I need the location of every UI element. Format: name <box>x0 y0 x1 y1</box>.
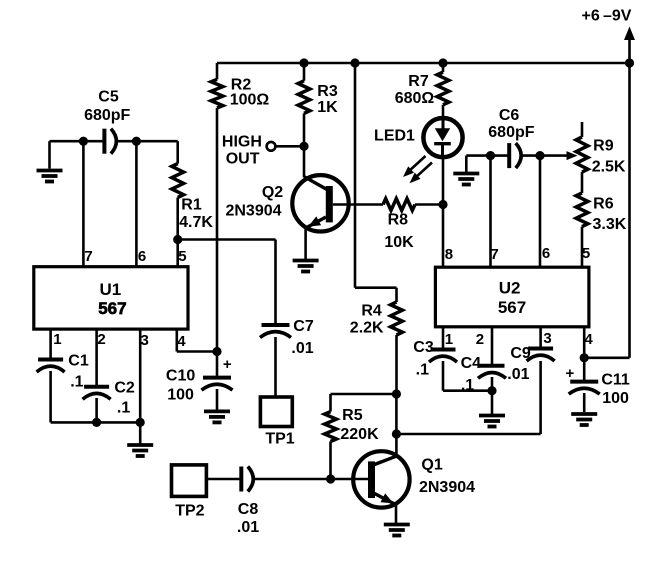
node: C5 / U1 pin 7 junction <box>79 137 88 146</box>
node: rail junction at R4 branch <box>350 58 359 67</box>
wire: HIGH OUT node to Q2 collector <box>303 146 306 177</box>
resistor R8 <box>383 199 415 211</box>
svg-text:C1: C1 <box>68 353 89 370</box>
power terminal +6-9V arrow <box>628 38 631 63</box>
node: pin 3 ground junction <box>136 418 145 427</box>
wire: C6 right plate to node <box>522 154 541 157</box>
wire: U2 pin 3 down <box>539 327 542 349</box>
node: R4/R5 junction <box>392 389 401 398</box>
wire: U2 pin 7 line <box>489 156 492 268</box>
wire: R2 top to rail <box>216 63 219 79</box>
svg-text:100Ω: 100Ω <box>230 91 270 108</box>
svg-text:R7: R7 <box>408 73 429 90</box>
wire: R8 to LED node <box>415 203 443 206</box>
wire: C5 row to R1 corner <box>136 140 177 143</box>
ground: C3/C4 <box>479 414 505 418</box>
capacitor C10 (electrolytic) <box>216 352 219 378</box>
svg-text:220K: 220K <box>340 426 379 443</box>
wire: pin 5 node to C7 (crosses R2 wire) <box>178 238 276 241</box>
svg-text:C4: C4 <box>461 355 482 372</box>
node: C3/C4 ground junction <box>487 386 496 395</box>
svg-text:680Ω: 680Ω <box>395 90 435 107</box>
capacitor C7 <box>262 323 290 327</box>
svg-text:C10: C10 <box>166 368 195 385</box>
resistor R4 <box>391 302 403 335</box>
node: Q1 collector / C9 bus junction <box>392 429 401 438</box>
svg-text:3: 3 <box>543 330 551 347</box>
wire: C4 bottom to ground node <box>491 377 494 391</box>
node: pin 4 / R2 / C10 junction <box>212 347 221 356</box>
svg-text:8: 8 <box>445 246 453 263</box>
svg-text:.01: .01 <box>291 340 313 357</box>
svg-text:4: 4 <box>584 331 593 348</box>
svg-text:100: 100 <box>167 386 194 403</box>
resistor R6 <box>576 193 588 227</box>
wire: rail to R3 top <box>303 63 306 81</box>
wire: U1 pin 5 into box <box>176 240 179 267</box>
svg-text:.1: .1 <box>70 373 83 390</box>
wire: pin 4 node to right riser <box>584 356 629 359</box>
svg-text:7: 7 <box>84 248 92 265</box>
svg-text:R6: R6 <box>593 195 614 212</box>
wire: TP2 to C8 <box>206 478 241 481</box>
wire: rail to R7 <box>442 63 445 72</box>
node: rail junction at R3 <box>299 58 308 67</box>
wire: node to Q1 collector <box>395 434 398 456</box>
wire: C6 ground branch <box>466 154 490 157</box>
svg-text:.1: .1 <box>416 361 429 378</box>
node: Q1 base junction <box>326 474 335 483</box>
wire: R2 bottom down to C10 node <box>216 108 219 352</box>
svg-text:.01: .01 <box>237 519 259 536</box>
svg-text:C11: C11 <box>601 372 630 389</box>
node: LED cathode / U2 pin 8 junction <box>438 200 447 209</box>
node: C6 left / U2 pin 7 junction <box>486 151 495 160</box>
wire: U1 pin 2 down <box>95 329 98 387</box>
resistor R7 <box>437 72 449 105</box>
svg-text:567: 567 <box>98 299 126 318</box>
svg-text:U2: U2 <box>499 279 521 298</box>
capacitor C4 <box>480 364 505 368</box>
svg-text:2N3904: 2N3904 <box>419 479 475 496</box>
svg-text:1: 1 <box>53 331 61 348</box>
wire: bus to pin 3 node <box>97 421 141 424</box>
svg-text:TP2: TP2 <box>175 503 204 520</box>
svg-text:C9: C9 <box>510 345 531 362</box>
wire: +6-9V supply rail <box>217 62 630 65</box>
svg-text:OUT: OUT <box>226 150 260 167</box>
wire: C8 to Q1 base node <box>252 478 331 481</box>
wire: rail down to R4 (crosses Q2 base wire) <box>354 63 357 288</box>
svg-text:6: 6 <box>542 245 550 262</box>
LED LED1 <box>423 118 462 157</box>
wire: C2 bottom to bus node <box>95 398 98 422</box>
wire: C9 bottom bus to Q1 collector node <box>396 433 540 436</box>
wire: R7 to LED anode <box>442 105 445 119</box>
wire: Q2 emitter down <box>304 229 307 261</box>
IC U2 567 <box>435 267 589 327</box>
IC U1 567 <box>34 267 188 329</box>
svg-text:R1: R1 <box>181 197 202 214</box>
wire: ground stub <box>491 391 494 414</box>
transistor Q2 2N3904 <box>292 175 348 231</box>
wire: R5 top branch <box>331 393 397 396</box>
capacitor C9 <box>528 347 553 351</box>
wire: U2 pin 6 line <box>539 156 542 268</box>
wire: R4 bottom to R5 node <box>395 335 398 394</box>
svg-text:4.7K: 4.7K <box>179 214 213 231</box>
svg-text:+: + <box>223 356 232 373</box>
wire: U1 pin 3 down <box>139 329 142 422</box>
svg-text:Q1: Q1 <box>421 457 442 474</box>
capacitor C2 <box>84 385 109 389</box>
wire: C1 bottom to bus <box>49 371 52 422</box>
wire: wiper arrow to R9 <box>540 154 568 157</box>
wire: Q1 emitter down <box>395 505 398 523</box>
wire: C7 to TP1 <box>274 337 277 397</box>
svg-text:.1: .1 <box>117 399 130 416</box>
svg-text:567: 567 <box>498 298 526 317</box>
wire: R3 bottom to HIGH OUT node <box>303 113 306 146</box>
svg-text:2N3904: 2N3904 <box>225 202 281 219</box>
svg-text:C7: C7 <box>293 318 314 335</box>
capacitor C5 <box>102 129 106 154</box>
svg-text:C2: C2 <box>114 380 135 397</box>
capacitor C3 <box>431 348 456 352</box>
wire: pin 3 ground stub <box>139 422 142 443</box>
node: rail corner to U2 pin 4 <box>625 58 634 67</box>
wire: U1 pin 4 to C10 node <box>176 329 179 351</box>
node: HIGH OUT junction <box>299 142 308 151</box>
svg-text:1K: 1K <box>317 99 338 116</box>
wire: U2 pin 1 down <box>442 327 445 350</box>
svg-text:100: 100 <box>602 390 629 407</box>
svg-text:C8: C8 <box>238 501 259 518</box>
capacitor C6 <box>507 143 511 168</box>
wire: C3 bottom to C4 node <box>442 361 445 391</box>
svg-text:680pF: 680pF <box>488 124 534 141</box>
ground: Q1 emitter <box>384 523 410 527</box>
wire: R1 bottom to pin 5 node <box>176 198 179 240</box>
svg-text:.01: .01 <box>507 366 529 383</box>
svg-text:2.2K: 2.2K <box>350 320 384 337</box>
svg-text:6: 6 <box>138 248 146 265</box>
test point TP1 <box>260 397 292 427</box>
svg-text:Q2: Q2 <box>262 184 283 201</box>
wire: U1 pin 7 line <box>82 141 85 267</box>
wire: Q2 base to R8 <box>333 203 383 206</box>
svg-text:7: 7 <box>490 246 498 263</box>
svg-text:LED1: LED1 <box>374 127 415 144</box>
svg-text:R3: R3 <box>317 83 338 100</box>
wire: R5 node down to C9 bus node <box>395 394 398 434</box>
node: C5 / U1 pin 6 junction <box>132 137 141 146</box>
wire: R6 bottom to U2 pin 5 <box>581 227 584 268</box>
ground: C10 <box>204 409 230 413</box>
svg-text:4: 4 <box>177 333 186 350</box>
wire: base node to Q1 base <box>331 478 368 481</box>
svg-text:1: 1 <box>445 331 453 348</box>
svg-text:3.3K: 3.3K <box>593 216 627 233</box>
svg-text:C3: C3 <box>413 339 434 356</box>
svg-text:+6 –9V: +6 –9V <box>582 7 632 24</box>
wire: U1 pin 1 down <box>49 329 52 359</box>
wire: U2 pin 4 down <box>583 327 586 358</box>
capacitor C1 <box>38 358 63 362</box>
ground: Q2 emitter <box>293 259 319 263</box>
resistor R3 <box>298 81 310 114</box>
svg-text:3: 3 <box>141 332 149 349</box>
node: rail junction at R7 <box>438 58 447 67</box>
resistor R2 <box>211 79 223 108</box>
wire: C6 left node to plate <box>491 154 510 157</box>
node: U1 pin 5 junction <box>173 235 182 244</box>
ground: U1 pin 3 <box>127 443 153 447</box>
svg-text:10K: 10K <box>384 234 414 251</box>
svg-text:2.5K: 2.5K <box>592 159 626 176</box>
ground: C11 <box>571 412 597 416</box>
node: pin 4 / C11 junction <box>580 353 589 362</box>
wire: C5 right plate to node <box>117 140 137 143</box>
svg-text:5: 5 <box>178 248 186 265</box>
resistor R1 <box>172 164 184 198</box>
wire: node to C5 plate <box>83 140 104 143</box>
wire: LED cathode to node to U2 pin 8 <box>442 158 445 205</box>
wire: U2 pin 2 down <box>491 327 494 366</box>
svg-text:R8: R8 <box>388 211 409 228</box>
wire: C5 ground branch <box>50 140 84 143</box>
test point TP2 <box>172 465 207 497</box>
resistor R5 <box>325 412 337 442</box>
capacitor C11 (electrolytic) <box>583 358 586 382</box>
transistor Q1 2N3904 <box>353 451 409 507</box>
LED1 light emission arrows <box>409 156 426 172</box>
svg-text:C5: C5 <box>98 89 119 106</box>
potentiometer R9 <box>581 122 584 137</box>
capacitor C8 <box>239 467 243 492</box>
svg-text:TP1: TP1 <box>265 431 294 448</box>
ground: C5 left <box>37 169 63 173</box>
wire: right riser to rail <box>628 63 631 358</box>
wire: R9 bottom to R6 top <box>581 172 584 193</box>
svg-text:U1: U1 <box>100 280 122 299</box>
svg-text:680pF: 680pF <box>84 107 130 124</box>
svg-text:C6: C6 <box>499 107 520 124</box>
node: C2 bus junction <box>92 418 101 427</box>
wire: R5 bottom to Q1 base node <box>329 442 332 480</box>
ground: C6 left plate <box>453 172 479 176</box>
svg-text:2: 2 <box>97 331 105 348</box>
svg-text:R9: R9 <box>593 138 614 155</box>
svg-text:.1: .1 <box>461 377 474 394</box>
node: C6 right / U2 pin 6 junction <box>535 151 544 160</box>
svg-text:R5: R5 <box>342 407 363 424</box>
svg-text:R4: R4 <box>361 303 382 320</box>
svg-text:HIGH: HIGH <box>222 133 262 150</box>
wire: U1 pin 6 line <box>135 141 138 267</box>
svg-text:2: 2 <box>476 331 484 348</box>
svg-text:5: 5 <box>582 245 590 262</box>
svg-text:+: + <box>566 365 575 382</box>
